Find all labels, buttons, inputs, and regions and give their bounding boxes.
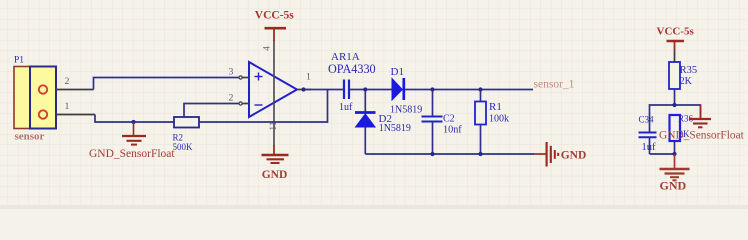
svg-text:C34: C34 bbox=[639, 115, 655, 125]
svg-text:GND: GND bbox=[660, 179, 687, 193]
wire divider node bbox=[650, 105, 701, 132]
junction divider bottom bbox=[672, 152, 676, 156]
svg-text:GND_SensorFloat: GND_SensorFloat bbox=[659, 130, 745, 142]
resistor R36 bbox=[670, 115, 681, 154]
ground GND (op-amp) bbox=[262, 145, 289, 163]
resistor R2 bbox=[174, 117, 199, 128]
capacitor C2 bbox=[422, 90, 443, 155]
svg-text:R35: R35 bbox=[680, 65, 698, 76]
svg-text:2: 2 bbox=[229, 93, 234, 104]
svg-text:10nf: 10nf bbox=[443, 125, 462, 136]
op-amp input pin stubs with hot-end circles bbox=[239, 76, 249, 105]
svg-text:OPA4330: OPA4330 bbox=[328, 62, 376, 76]
P1 pad circle pin 2 bbox=[39, 85, 47, 93]
svg-text:sensor: sensor bbox=[15, 131, 45, 143]
diode D1 bbox=[392, 78, 404, 100]
junction R1 tap bbox=[478, 87, 482, 91]
ground GND_SensorFloat (left) bbox=[122, 122, 146, 145]
wire feedback to R2 bbox=[199, 90, 328, 123]
power VCC-5s (op-amp) bbox=[265, 28, 287, 41]
svg-text:VCC-5s: VCC-5s bbox=[657, 26, 695, 38]
svg-text:4: 4 bbox=[262, 46, 272, 51]
svg-text:1: 1 bbox=[65, 101, 70, 112]
wire P1 pin1 to R2 bbox=[95, 115, 174, 123]
diode D2 bbox=[355, 113, 376, 155]
junction rail C2 bbox=[430, 152, 434, 156]
capacitor C34 bbox=[639, 133, 657, 155]
svg-text:GND_SensorFloat: GND_SensorFloat bbox=[89, 148, 175, 160]
resistor R35 bbox=[669, 50, 680, 105]
resistor R1 bbox=[475, 90, 486, 155]
svg-text:1: 1 bbox=[306, 72, 311, 83]
svg-text:GND: GND bbox=[561, 150, 587, 162]
junction node at GND_SensorFloat tap bbox=[131, 120, 135, 124]
wire D1 to sensor_1 bbox=[405, 89, 533, 91]
connector P1 body bbox=[14, 67, 56, 129]
junction C2 tap bbox=[430, 87, 434, 91]
svg-text:1uf: 1uf bbox=[642, 142, 657, 153]
wire divider bottom rail bbox=[650, 153, 675, 155]
P1 pin stub 1 bbox=[56, 114, 95, 116]
junction at output bbox=[301, 87, 305, 91]
svg-text:R2: R2 bbox=[173, 133, 184, 143]
wire ground rail bbox=[365, 153, 534, 155]
op-amp output pin stub bbox=[297, 89, 311, 91]
svg-text:1N5819: 1N5819 bbox=[379, 123, 411, 134]
op-amp power pin line bbox=[273, 40, 275, 146]
wire P1 pin2 to op-amp +input bbox=[94, 78, 239, 90]
svg-text:VCC-5s: VCC-5s bbox=[255, 10, 294, 22]
wire capacitor to D1 bbox=[350, 89, 393, 91]
wire D2 branch bbox=[364, 90, 366, 113]
wire R2 top to op-amp -input bbox=[184, 104, 239, 118]
capacitor 1uf (series) bbox=[344, 80, 349, 100]
svg-text:1N5819: 1N5819 bbox=[390, 105, 422, 116]
wire op-amp output to capacitor bbox=[304, 89, 344, 91]
ground GND (divider) bbox=[660, 154, 690, 180]
ground GND (rail) bbox=[534, 142, 558, 167]
svg-text:C2: C2 bbox=[443, 114, 455, 125]
svg-text:2: 2 bbox=[65, 76, 70, 87]
svg-text:P1: P1 bbox=[14, 56, 24, 66]
svg-text:2K: 2K bbox=[680, 76, 693, 87]
svg-text:GND: GND bbox=[262, 169, 288, 181]
svg-text:3: 3 bbox=[229, 67, 234, 78]
junction node at D2 tap bbox=[363, 87, 367, 91]
svg-text:500K: 500K bbox=[173, 142, 194, 152]
svg-text:100k: 100k bbox=[489, 114, 509, 125]
op-amp AR1A triangle bbox=[249, 62, 297, 117]
svg-text:1uf: 1uf bbox=[339, 102, 353, 113]
power VCC-5s (divider) bbox=[667, 41, 685, 50]
svg-text:sensor_1: sensor_1 bbox=[534, 79, 575, 91]
junction divider node bbox=[672, 103, 676, 107]
P1 pad circle pin 1 bbox=[39, 110, 47, 118]
svg-text:R1: R1 bbox=[489, 101, 502, 113]
junction rail R1 bbox=[478, 152, 482, 156]
svg-text:D1: D1 bbox=[391, 66, 404, 78]
ground GND_SensorFloat (divider) bbox=[689, 105, 711, 127]
P1 pin stub 2 bbox=[56, 89, 94, 91]
